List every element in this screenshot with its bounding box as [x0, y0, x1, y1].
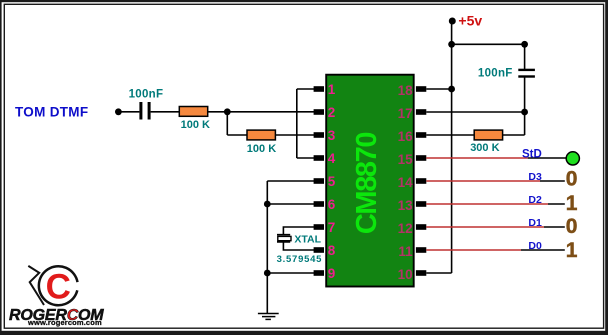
svg-text:17: 17: [398, 106, 413, 121]
svg-text:16: 16: [398, 129, 414, 144]
svg-text:11: 11: [398, 244, 413, 259]
wire pin17: [426, 111, 524, 113]
wire crystal to pin8: [283, 242, 315, 250]
IC left pin numbers 1-9: [328, 82, 336, 281]
svg-text:TOM DTMF: TOM DTMF: [15, 104, 88, 119]
node IN (input junction dot): [115, 108, 122, 115]
svg-text:0: 0: [566, 215, 578, 238]
svg-text:3: 3: [328, 128, 336, 143]
svg-text:5: 5: [328, 174, 336, 189]
svg-text:D2: D2: [528, 194, 542, 206]
wire D3 black: [540, 180, 565, 182]
node C2/pin17: [521, 109, 528, 116]
ground: [258, 314, 279, 320]
wire down to C2: [524, 44, 526, 70]
svg-text:15: 15: [398, 152, 414, 167]
svg-text:3.579545: 3.579545: [277, 254, 323, 265]
wire StD black to LED: [528, 157, 566, 159]
wire pin14 D3 red: [426, 180, 540, 182]
svg-text:XTAL: XTAL: [294, 233, 321, 245]
resistor R1: [179, 107, 207, 117]
svg-text:D3: D3: [528, 171, 542, 183]
wire R1 to pin2 stub: [208, 111, 315, 113]
wire pin13 D2 red: [426, 203, 548, 205]
logo zigzag: [28, 266, 44, 305]
IC left pin stubs: [314, 86, 324, 276]
IC U1 CM8870 body: [326, 75, 414, 287]
svg-text:7: 7: [328, 220, 336, 235]
svg-text:4: 4: [328, 151, 336, 166]
svg-text:1: 1: [328, 82, 336, 97]
svg-text:10: 10: [398, 267, 413, 282]
logo circle: [39, 266, 78, 305]
wire pin7 to crystal: [283, 227, 315, 235]
svg-text:8: 8: [328, 243, 336, 258]
wire D2 black: [548, 203, 565, 205]
resistor R3: [474, 130, 502, 140]
wire pin16 to R3: [426, 134, 474, 136]
svg-text:www.rogercom.com: www.rogercom.com: [27, 318, 102, 327]
wire C2 to pin17 row: [524, 77, 526, 112]
capacitor C2 100nF plates: [518, 69, 535, 78]
wire C1 to R1: [151, 111, 180, 113]
svg-text:+5v: +5v: [458, 12, 482, 28]
crystal XTAL: [277, 235, 291, 242]
node C2 top: [521, 41, 528, 48]
capacitor C1 100nF plates: [139, 102, 150, 120]
wire vertical bus pins 1-4: [296, 89, 298, 158]
wire R2 to pin3 stub: [275, 134, 315, 136]
wire pin5 to xtal bus: [267, 180, 315, 182]
IC right pin numbers 18-10: [398, 83, 414, 282]
svg-text:D0: D0: [528, 240, 542, 252]
svg-text:CM8870: CM8870: [351, 133, 383, 234]
wire input dot to C1: [118, 111, 139, 113]
LED StD: [566, 152, 579, 165]
svg-text:12: 12: [398, 221, 413, 236]
svg-text:C: C: [46, 267, 71, 306]
wire R3 right: [503, 134, 525, 136]
svg-text:13: 13: [398, 198, 414, 213]
wire bus to pin9: [267, 272, 315, 274]
node bus/pin9: [264, 270, 271, 277]
IC right pin stubs: [416, 86, 426, 276]
wire pin11 D0 red: [426, 249, 521, 251]
svg-text:1: 1: [566, 192, 578, 215]
wire to R2: [227, 134, 247, 136]
svg-text:100nF: 100nF: [129, 89, 164, 101]
wire down to R3 row: [524, 112, 526, 135]
svg-text:9: 9: [328, 266, 336, 281]
svg-text:14: 14: [398, 175, 414, 190]
resistor R2: [247, 130, 275, 140]
node after R1: [224, 108, 231, 115]
wire bus to pin6: [267, 203, 315, 205]
wire pin10 to +5v bus: [426, 272, 451, 274]
wire pin18 to +5v bus: [426, 88, 451, 90]
wire xtal bus vertical: [266, 181, 268, 313]
node +5v/C2 left: [448, 41, 455, 48]
svg-text:100 K: 100 K: [181, 119, 210, 131]
svg-text:300 K: 300 K: [470, 142, 499, 154]
node pin18/+5v: [448, 86, 455, 93]
svg-text:2: 2: [328, 105, 336, 120]
svg-text:6: 6: [328, 197, 336, 212]
wire +5v vertical bus: [451, 21, 453, 273]
wire pin12 D1 red: [426, 226, 544, 228]
node bus/pin6: [264, 201, 271, 208]
wire pin15 StD red: [426, 157, 527, 159]
wire bus to pin4: [297, 157, 315, 159]
wire D1 black: [544, 226, 565, 228]
svg-text:0: 0: [566, 167, 578, 190]
wire bus to pin1: [297, 88, 315, 90]
wire top horizontal to C2: [452, 43, 525, 45]
node +5v top: [449, 18, 456, 25]
svg-text:StD: StD: [522, 148, 542, 160]
wire node down to R2 row: [226, 112, 228, 135]
svg-text:18: 18: [398, 83, 414, 98]
svg-text:100nF: 100nF: [478, 68, 513, 80]
svg-text:D1: D1: [528, 217, 542, 229]
svg-text:1: 1: [566, 239, 578, 262]
svg-text:100 K: 100 K: [247, 143, 276, 155]
wire D0 black: [521, 249, 565, 251]
